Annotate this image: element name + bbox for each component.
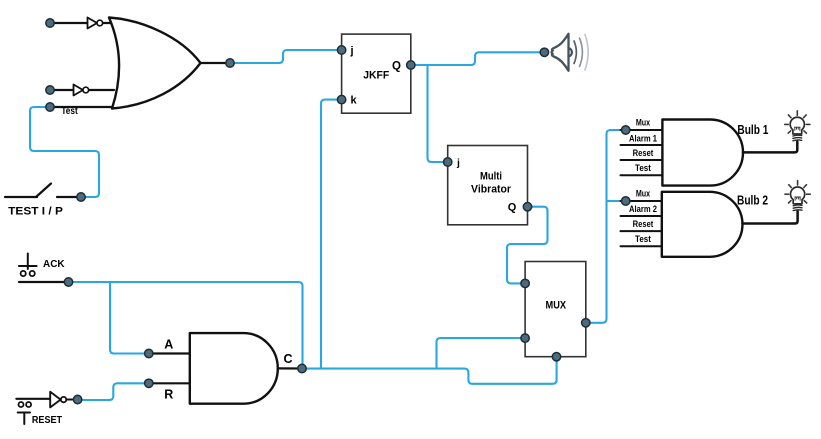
wire ACK pushbutton over to C node xyxy=(71,282,303,366)
svg-text:Test: Test xyxy=(635,163,651,173)
node U5 Mux input xyxy=(622,126,630,134)
svg-text:Reset: Reset xyxy=(633,148,654,158)
svg-text:Q: Q xyxy=(508,202,517,214)
label Multi xyxy=(480,170,502,182)
node C output xyxy=(298,364,306,372)
label C xyxy=(284,352,293,366)
wire TEST I/P switch to Test input of OR gate U1 xyxy=(30,107,99,197)
MUX U4 box xyxy=(525,262,586,357)
wire RESET bubble to node xyxy=(66,399,77,401)
node R input xyxy=(145,379,153,387)
wire Multi Vibrator U3 Q output to upper-left pin of MUX U4 xyxy=(507,207,548,284)
node ACK output xyxy=(64,278,72,286)
node MUX right pin xyxy=(582,319,590,327)
wire U5 input Alarm 1 xyxy=(621,144,664,146)
svg-text:Alarm 1: Alarm 1 xyxy=(629,133,657,143)
svg-text:ACK: ACK xyxy=(43,258,65,270)
wire JKFF U2 Q output branch down to J input of Multi Vibrator U3 xyxy=(428,65,446,162)
svg-text:Test: Test xyxy=(61,106,78,117)
svg-text:TEST I / P: TEST I / P xyxy=(8,206,63,218)
svg-text:A: A xyxy=(164,337,173,351)
and-gate U5 for Bulb 1 xyxy=(662,120,743,186)
wire OR input 1 segment xyxy=(50,22,88,24)
label U5 input Reset xyxy=(633,148,654,158)
svg-text:RESET: RESET xyxy=(32,415,63,426)
label ACK xyxy=(43,258,65,270)
svg-text:Alarm 2: Alarm 2 xyxy=(629,204,657,214)
svg-text:Test: Test xyxy=(635,234,651,244)
wire Test input segment to OR gate xyxy=(50,106,113,108)
wire MUX U4 right output up to Mux input of AND gate U5 xyxy=(587,130,623,323)
wire C-net branch up to lower-left pin of MUX U4 xyxy=(437,338,524,369)
label Q pin of JKFF xyxy=(392,60,401,72)
node OR input 1 xyxy=(46,19,54,27)
node A input xyxy=(145,349,153,357)
label U6 input Mux xyxy=(636,189,650,199)
label U5 input Test xyxy=(635,163,651,173)
wire U6 input Test xyxy=(621,245,664,247)
node TEST I/P output xyxy=(77,193,85,201)
label U5 input Alarm 1 xyxy=(629,133,657,143)
svg-text:j: j xyxy=(456,157,460,169)
node OR gate output xyxy=(226,59,234,67)
node MUX upper-left pin xyxy=(521,279,529,287)
label MUX xyxy=(546,300,567,312)
speaker LS1 (horn with sound waves) xyxy=(552,34,589,71)
label RESET xyxy=(32,415,63,426)
node Multi Vibrator J pin xyxy=(444,158,452,166)
wire ACK branch down to A input of AND gate U7 xyxy=(110,282,146,354)
node JKFF Q pin xyxy=(407,61,415,69)
svg-text:Bulb 1: Bulb 1 xyxy=(737,122,768,137)
label Bulb 2 xyxy=(737,193,768,208)
node OR input 2 xyxy=(46,86,54,94)
svg-text:MUX: MUX xyxy=(546,300,567,312)
label Vibrator xyxy=(471,183,512,195)
inverter on OR input 2 xyxy=(74,84,89,95)
switch TEST I/P (SPST open) xyxy=(5,184,78,198)
label J pin of Multi Vibrator xyxy=(456,157,460,169)
inverter on RESET xyxy=(50,392,66,408)
wire C output segment xyxy=(278,367,300,369)
and-gate U7 xyxy=(190,333,278,404)
label Bulb 1 xyxy=(737,122,768,137)
wire inverter 2 output to OR gate xyxy=(89,89,114,91)
wire U6 input Mux xyxy=(621,200,664,202)
svg-text:Vibrator: Vibrator xyxy=(471,183,512,195)
wire U5 input Test xyxy=(621,174,664,176)
node MUX bottom pin xyxy=(552,353,560,361)
svg-text:R: R xyxy=(164,388,173,402)
svg-text:Q: Q xyxy=(392,60,401,72)
node U6 Mux input xyxy=(622,197,630,205)
wire OR gate output segment xyxy=(201,62,231,64)
label U6 input Test xyxy=(635,234,651,244)
wire C node to bottom pin of MUX U4 xyxy=(305,359,557,384)
wire RESET inverter output to R input of AND gate U7 xyxy=(80,383,146,400)
label Test xyxy=(61,106,78,117)
node speaker input xyxy=(540,48,548,56)
svg-text:C: C xyxy=(284,352,293,366)
and-gate U6 for Bulb 2 xyxy=(662,192,743,257)
label TEST I / P xyxy=(8,206,63,218)
node RESET output xyxy=(73,395,81,403)
svg-text:JKFF: JKFF xyxy=(363,70,389,82)
label JKFF xyxy=(363,70,389,82)
label A xyxy=(164,337,173,351)
label Q pin of Multi Vibrator xyxy=(508,202,517,214)
svg-text:Mux: Mux xyxy=(636,118,650,128)
wire U6 input Reset xyxy=(621,230,664,232)
label J pin of JKFF xyxy=(350,45,354,57)
wire U6 output to bulb B2 xyxy=(743,211,798,223)
node JKFF J pin xyxy=(337,46,345,54)
label U6 input Reset xyxy=(633,219,654,229)
wire branch to Mux input of AND gate U6 xyxy=(607,200,624,202)
node JKFF K pin xyxy=(337,95,345,103)
JKFF U2 box xyxy=(342,34,411,113)
wire C node to K input of JKFF U2 (feedback) xyxy=(321,100,341,369)
wire U5 input Reset xyxy=(621,159,664,161)
wire U6 input Alarm 2 xyxy=(621,215,664,217)
node Test input xyxy=(46,103,54,111)
svg-text:Reset: Reset xyxy=(633,219,654,229)
wire inverter 1 output to OR gate xyxy=(103,22,112,24)
wire U5 output to bulb B1 xyxy=(743,142,797,153)
label K pin of JKFF xyxy=(351,94,358,106)
Multi Vibrator U3 box xyxy=(448,146,528,225)
pushbutton ACK (normally open) xyxy=(19,254,69,283)
svg-text:Bulb 2: Bulb 2 xyxy=(737,193,768,208)
svg-text:Multi: Multi xyxy=(480,170,502,182)
label U6 input Alarm 2 xyxy=(629,204,657,214)
node Multi Vibrator Q pin xyxy=(523,203,531,211)
or-gate U1 (3-input OR) xyxy=(109,18,201,109)
label R xyxy=(164,388,173,402)
node MUX lower-left pin xyxy=(521,334,529,342)
label U5 input Mux xyxy=(636,118,650,128)
wire OR gate U1 output to J input of JKFF U2 xyxy=(232,50,339,63)
svg-text:j: j xyxy=(350,45,354,57)
wire U5 input Mux xyxy=(621,129,664,131)
inverter on OR input 1 xyxy=(88,17,103,28)
lamp B1 (Bulb 1) xyxy=(785,111,810,141)
wire A input segment xyxy=(149,352,191,354)
lamp B2 (Bulb 2) xyxy=(785,181,810,211)
wire JKFF U2 Q output to speaker LS1 xyxy=(412,52,541,65)
wire R input segment xyxy=(149,382,191,384)
svg-text:Mux: Mux xyxy=(636,189,650,199)
svg-text:k: k xyxy=(351,94,358,106)
wire OR input 2 segment xyxy=(50,89,74,91)
pushbutton RESET (normally closed) xyxy=(16,399,50,424)
